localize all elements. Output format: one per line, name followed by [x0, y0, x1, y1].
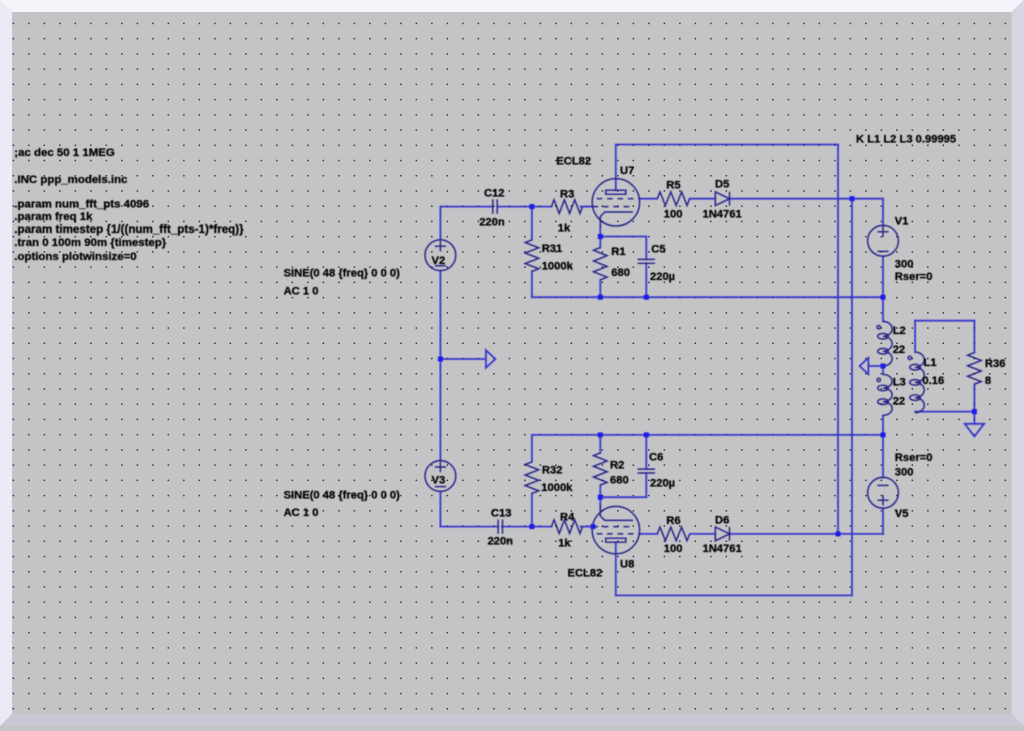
svg-text:AC 1 0: AC 1 0	[284, 286, 319, 298]
svg-text:U7: U7	[620, 165, 634, 177]
svg-text:AC 1 0: AC 1 0	[284, 507, 319, 519]
svg-text:Rser=0: Rser=0	[895, 271, 933, 283]
svg-text:R36: R36	[985, 358, 1006, 370]
svg-text:L3: L3	[893, 376, 906, 388]
svg-text:R2: R2	[610, 460, 624, 472]
svg-text:220n: 220n	[488, 536, 514, 548]
svg-text:R31: R31	[542, 243, 563, 255]
svg-text:1k: 1k	[558, 223, 571, 235]
svg-text:C5: C5	[651, 243, 665, 255]
svg-text:V1: V1	[895, 216, 909, 228]
svg-text:1N4761: 1N4761	[703, 543, 742, 555]
svg-text:V3: V3	[432, 475, 446, 487]
svg-text:R3: R3	[560, 188, 574, 200]
svg-text:.tran 0 100m 90m {timestep}: .tran 0 100m 90m {timestep}	[14, 237, 166, 249]
svg-text:.INC ppp_models.inc: .INC ppp_models.inc	[14, 174, 128, 186]
svg-text:220µ: 220µ	[650, 271, 675, 283]
svg-text:100: 100	[664, 208, 683, 220]
svg-text:R4: R4	[560, 511, 575, 523]
svg-text:.options plotwinsize=0: .options plotwinsize=0	[14, 251, 136, 263]
svg-text:8: 8	[985, 375, 991, 387]
svg-text:ECL82: ECL82	[568, 567, 603, 579]
svg-text:C12: C12	[484, 188, 505, 200]
svg-text:.param num_fft_pts 4096: .param num_fft_pts 4096	[14, 199, 149, 211]
svg-text:R5: R5	[666, 180, 680, 192]
svg-text:SINE(0 48 {freq} 0 0 0): SINE(0 48 {freq} 0 0 0)	[284, 489, 401, 501]
svg-text:300: 300	[895, 259, 914, 271]
svg-text:L1: L1	[924, 357, 937, 369]
svg-text:680: 680	[610, 475, 629, 487]
svg-text:0.16: 0.16	[922, 375, 944, 387]
svg-text:220µ: 220µ	[650, 477, 675, 489]
svg-text:D6: D6	[715, 515, 729, 527]
svg-text:Rser=0: Rser=0	[895, 452, 933, 464]
svg-text:;ac dec 50 1 1MEG: ;ac dec 50 1 1MEG	[14, 147, 115, 159]
svg-text:V2: V2	[432, 255, 446, 267]
svg-text:C6: C6	[649, 451, 663, 463]
svg-text:K L1 L2 L3 0.99995: K L1 L2 L3 0.99995	[856, 133, 956, 145]
svg-text:1N4761: 1N4761	[703, 208, 742, 220]
svg-text:SINE(0 48 {freq} 0 0 0): SINE(0 48 {freq} 0 0 0)	[284, 267, 401, 279]
svg-text:V5: V5	[895, 508, 909, 520]
svg-text:680: 680	[611, 267, 630, 279]
svg-text:1000k: 1000k	[542, 261, 574, 273]
svg-text:100: 100	[664, 543, 683, 555]
svg-text:U8: U8	[620, 559, 634, 571]
svg-text:D5: D5	[715, 179, 729, 191]
svg-text:R1: R1	[611, 246, 625, 258]
svg-text:R6: R6	[666, 515, 680, 527]
svg-text:ECL82: ECL82	[556, 156, 591, 168]
svg-text:.param freq 1k: .param freq 1k	[14, 211, 93, 223]
svg-text:220n: 220n	[479, 217, 505, 229]
svg-text:22: 22	[893, 344, 905, 356]
svg-text:.param timestep {1/((num_fft_p: .param timestep {1/((num_fft_pts-1)*freq…	[14, 223, 244, 236]
svg-text:L2: L2	[893, 325, 906, 337]
svg-text:1000k: 1000k	[541, 482, 573, 494]
svg-text:1k: 1k	[558, 538, 571, 550]
svg-text:R32: R32	[542, 465, 563, 477]
svg-text:22: 22	[893, 396, 905, 408]
svg-text:300: 300	[895, 466, 914, 478]
svg-text:C13: C13	[491, 508, 512, 520]
